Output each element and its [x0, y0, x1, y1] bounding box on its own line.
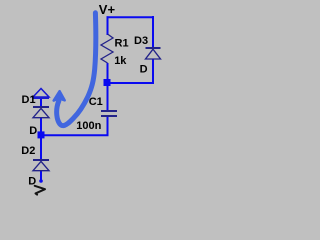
svg-text:D: D: [29, 125, 37, 137]
svg-text:R1: R1: [115, 37, 129, 49]
svg-text:D2: D2: [21, 145, 35, 157]
capacitor C1: [101, 111, 117, 116]
svg-text:D3: D3: [134, 35, 148, 47]
annotation blue arrow head: [54, 91, 65, 100]
svg-text:D: D: [140, 63, 148, 75]
annotation blue arrow curve: [57, 13, 96, 126]
svg-text:1k: 1k: [114, 55, 127, 67]
wire left rail to R1: [107, 16, 109, 35]
junction node at D1/D2/C1: [38, 131, 45, 138]
supply arrow terminal above D1: [33, 89, 49, 99]
diode D1: [33, 107, 49, 118]
annotation black chevron mark: [35, 186, 45, 195]
wire right rail top to D3: [152, 16, 154, 48]
resistor R1: [101, 34, 113, 63]
wire junction to D2: [40, 137, 42, 160]
wire right rail D3 to middle: [152, 60, 154, 85]
wire D1 arrow stub: [40, 98, 42, 107]
diode D2: [33, 160, 49, 171]
wire middle horizontal: [106, 82, 154, 84]
wire top rail V+: [107, 16, 155, 18]
wire bottom horizontal: [41, 134, 109, 136]
junction node at R1/C1/D3: [104, 79, 111, 86]
svg-text:V+: V+: [99, 2, 116, 17]
wire D1 to junction: [40, 117, 42, 133]
svg-text:C1: C1: [89, 96, 103, 108]
wire C1 bottom stub: [107, 116, 109, 136]
svg-text:100n: 100n: [76, 120, 101, 132]
diode D3: [146, 48, 161, 59]
svg-text:D1: D1: [22, 94, 36, 106]
wire R1 bottom stub: [107, 63, 109, 80]
wire stub end dot: [39, 179, 43, 183]
wire D2 bottom stub: [40, 170, 42, 181]
wire junction to C1: [107, 86, 109, 110]
